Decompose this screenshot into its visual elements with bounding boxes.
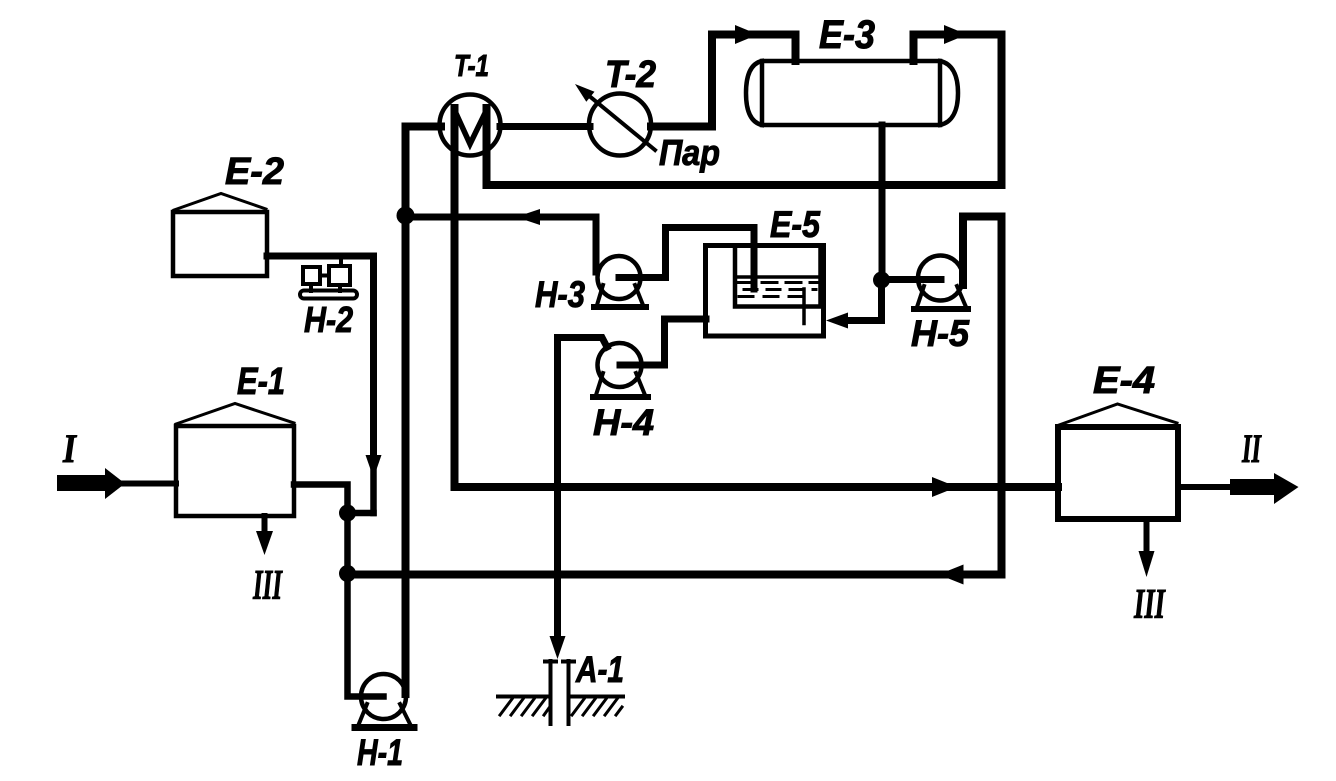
wire H-3 discharge to node3	[406, 217, 597, 272]
tank E-2	[173, 194, 267, 277]
svg-text:E-4: E-4	[1093, 360, 1155, 402]
wire H-3 suction from E-5	[619, 228, 754, 290]
wire dosing arrow to node1	[370, 470, 377, 513]
arrow left on recycle	[939, 565, 964, 585]
svg-text:E-1: E-1	[237, 361, 285, 403]
arrow III left	[256, 531, 273, 555]
wire I to E-1	[122, 481, 176, 487]
arrow down to A-1	[550, 636, 566, 659]
arrow right to E-4	[932, 477, 957, 497]
svg-text:H-4: H-4	[593, 402, 654, 443]
junction node 1	[339, 505, 356, 522]
wire E-3 overhead to T-1 tube right leg	[487, 35, 1002, 186]
svg-text:T-1: T-1	[454, 48, 489, 83]
arrow down on dosing line	[366, 455, 382, 478]
wire node2 down to pump H-1	[348, 574, 384, 697]
T-1 tube V	[455, 110, 487, 144]
arrow right on E-3 inlet	[735, 25, 758, 44]
svg-text:E-5: E-5	[770, 204, 821, 245]
svg-text:H-5: H-5	[911, 313, 970, 354]
svg-text:E-3: E-3	[819, 13, 875, 57]
wire H-5 discharge recycle line	[348, 217, 1002, 575]
apparatus A-1	[545, 661, 574, 724]
svg-text:A-1: A-1	[575, 649, 624, 690]
arrow right on overhead	[944, 25, 967, 44]
pump H-5	[914, 256, 968, 310]
pump H-1	[355, 674, 414, 728]
vessel E-3	[746, 61, 958, 125]
arrow III right	[1139, 551, 1155, 577]
heat exchanger T-1	[440, 95, 501, 156]
wire node4 to pump H-5	[882, 276, 942, 283]
junction node 2	[339, 565, 356, 582]
wire H-4 discharge to A-1	[558, 338, 608, 639]
wire E-1 outlet	[294, 485, 348, 509]
ground hatching	[500, 699, 622, 715]
svg-text:I: I	[62, 426, 77, 471]
svg-text:III: III	[252, 563, 283, 609]
stream II outlet block arrow	[1230, 473, 1299, 504]
pump H-4	[593, 343, 648, 397]
junction node 3 on riser	[397, 207, 415, 225]
svg-text:H-2: H-2	[304, 299, 353, 340]
tank E-4	[1058, 404, 1178, 519]
tank E-1	[176, 404, 294, 517]
wire E-5 to pump H-4 suction	[620, 319, 706, 365]
arrow left into E-5	[826, 313, 848, 329]
svg-text:H-3: H-3	[535, 274, 585, 315]
wire T-1 shell to T-2	[500, 123, 590, 130]
wire node1 to node2	[344, 513, 351, 574]
vessel E-5	[706, 246, 824, 337]
wire E-3 bottom drain	[879, 125, 886, 276]
ground line	[498, 695, 623, 699]
dosing pump H-2	[300, 256, 357, 299]
wire T-1 tube left leg to E-4	[455, 108, 1059, 487]
arrow left on H-3 discharge	[516, 209, 540, 225]
svg-text:E-2: E-2	[225, 151, 284, 193]
svg-text:II: II	[1241, 426, 1261, 471]
svg-text:Пар: Пар	[659, 132, 720, 173]
stream I inlet block arrow	[57, 468, 125, 499]
wire E-4 outlet	[1178, 484, 1231, 490]
wire node4 to E-5 inlet	[843, 280, 882, 321]
wire T-2 to E-3 inlet	[651, 35, 796, 127]
svg-text:T-2: T-2	[605, 54, 656, 96]
svg-text:III: III	[1133, 582, 1166, 628]
wire E-1 drain	[262, 516, 268, 534]
wire H-1 discharge riser to T-1	[406, 127, 442, 695]
junction node 4	[873, 272, 890, 289]
svg-text:H-1: H-1	[357, 732, 403, 773]
heater T-2	[589, 94, 651, 156]
pump H-3	[594, 256, 646, 307]
wire E-4 drain	[1144, 519, 1150, 553]
T-2 steam arrow diagonal	[588, 95, 655, 150]
wire node1 to E-2 branch	[348, 510, 374, 517]
wire E-2 to riser	[267, 256, 374, 455]
